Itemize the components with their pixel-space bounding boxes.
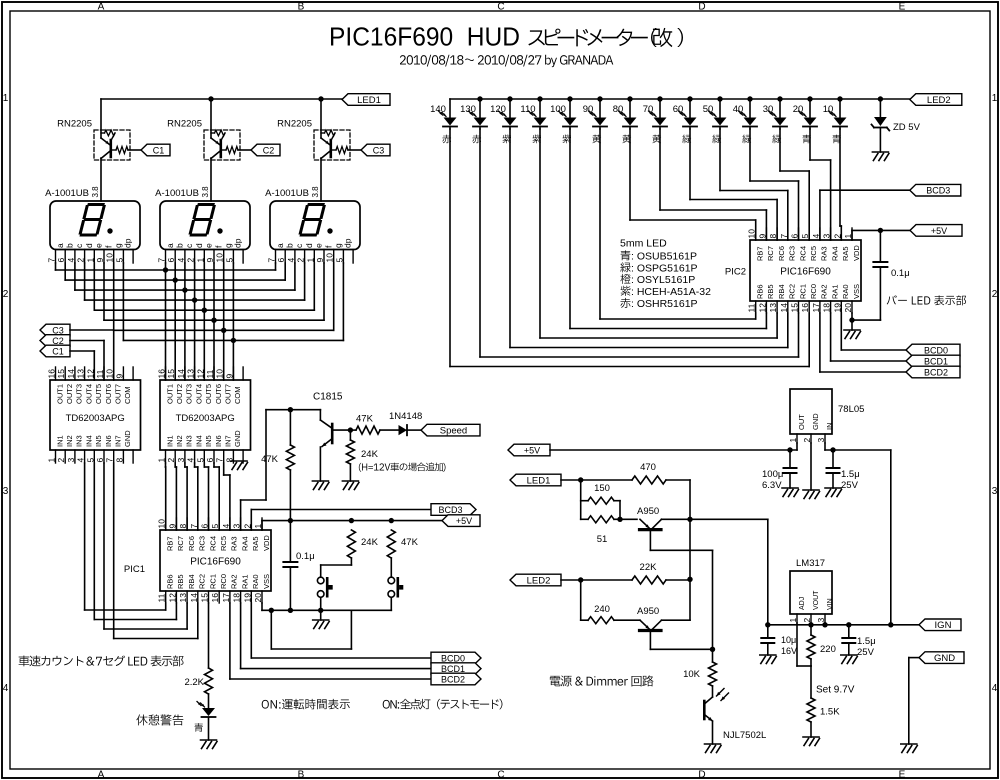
svg-text:2: 2 xyxy=(992,289,998,300)
svg-text:4: 4 xyxy=(286,258,296,263)
svg-text:BCD2: BCD2 xyxy=(441,674,465,684)
svg-text:COM: COM xyxy=(233,387,242,405)
svg-text:GND: GND xyxy=(811,413,820,430)
svg-text:1: 1 xyxy=(788,618,798,623)
svg-text:IN7: IN7 xyxy=(114,435,123,447)
svg-text:C2: C2 xyxy=(263,145,275,155)
svg-text:18: 18 xyxy=(232,593,242,603)
svg-text:NJL7502L: NJL7502L xyxy=(723,730,766,741)
svg-text:1: 1 xyxy=(157,458,167,463)
svg-text:15: 15 xyxy=(790,303,800,313)
svg-text:IN4: IN4 xyxy=(194,435,203,447)
svg-text:A-1001UB: A-1001UB xyxy=(155,188,199,199)
svg-text:5: 5 xyxy=(114,258,124,263)
svg-text:12: 12 xyxy=(757,303,767,313)
svg-text:dp: dp xyxy=(233,238,243,248)
svg-text:RA3: RA3 xyxy=(820,246,829,261)
svg-text:IGN: IGN xyxy=(935,620,952,631)
svg-text:11: 11 xyxy=(747,303,757,312)
svg-text:OUT4: OUT4 xyxy=(84,384,93,404)
svg-text:: OSPG5161P: : OSPG5161P xyxy=(631,263,698,275)
svg-text:IN2: IN2 xyxy=(65,435,74,447)
svg-text:2: 2 xyxy=(296,258,306,263)
svg-text:IN3: IN3 xyxy=(75,435,84,447)
svg-text:OUT5: OUT5 xyxy=(94,384,103,404)
svg-text:RC2: RC2 xyxy=(788,284,797,299)
svg-text:6: 6 xyxy=(95,458,105,463)
svg-text:3.8: 3.8 xyxy=(91,186,100,198)
svg-text:VSS: VSS xyxy=(852,284,861,299)
svg-text:RB7: RB7 xyxy=(756,246,765,261)
svg-text:OUT3: OUT3 xyxy=(75,384,84,404)
svg-text:VDD: VDD xyxy=(852,245,861,261)
svg-text:GND: GND xyxy=(934,653,955,664)
svg-text:+5V: +5V xyxy=(931,226,947,236)
svg-text:10: 10 xyxy=(215,369,225,379)
svg-text:2.2K: 2.2K xyxy=(184,677,204,688)
svg-text:PIC16F690 HUD: PIC16F690 HUD xyxy=(329,22,520,52)
svg-text:3: 3 xyxy=(816,618,826,623)
svg-text:9: 9 xyxy=(315,258,325,263)
svg-text:c: c xyxy=(184,243,194,248)
svg-text:14: 14 xyxy=(176,369,186,379)
svg-text:E: E xyxy=(899,2,906,13)
svg-text:VIN: VIN xyxy=(827,598,834,610)
svg-text:d: d xyxy=(194,243,204,248)
svg-text:RC1: RC1 xyxy=(798,284,807,299)
svg-text:19: 19 xyxy=(242,593,252,603)
svg-text:25V: 25V xyxy=(841,480,859,491)
svg-text:RA2: RA2 xyxy=(230,574,239,589)
svg-text:1: 1 xyxy=(992,93,998,104)
svg-text:6: 6 xyxy=(166,258,176,263)
svg-text:10: 10 xyxy=(215,253,225,263)
svg-text:2: 2 xyxy=(76,258,86,263)
svg-text:16V: 16V xyxy=(781,646,797,656)
svg-text:2: 2 xyxy=(56,458,66,463)
svg-text:7: 7 xyxy=(105,458,115,463)
svg-text:RC0: RC0 xyxy=(809,284,818,299)
svg-text:IN1: IN1 xyxy=(55,435,64,447)
svg-text:RA5: RA5 xyxy=(251,536,260,551)
svg-text:IN3: IN3 xyxy=(185,435,194,447)
svg-text:COM: COM xyxy=(123,387,132,405)
svg-text:14: 14 xyxy=(189,593,199,603)
svg-text:RC4: RC4 xyxy=(208,536,217,551)
svg-text:3: 3 xyxy=(3,486,9,497)
svg-text:8: 8 xyxy=(114,458,124,463)
svg-text:RC3: RC3 xyxy=(198,536,207,551)
svg-text:4: 4 xyxy=(66,258,76,263)
svg-text:13: 13 xyxy=(768,303,778,313)
svg-text:OUT7: OUT7 xyxy=(224,384,233,404)
svg-text:OUT: OUT xyxy=(797,414,806,430)
svg-text:g: g xyxy=(333,243,343,248)
svg-text:c: c xyxy=(74,243,84,248)
svg-text:D: D xyxy=(698,770,705,780)
svg-text:C3: C3 xyxy=(52,325,64,335)
svg-text:7: 7 xyxy=(267,258,277,263)
svg-text:15: 15 xyxy=(166,369,176,379)
svg-text:RA1: RA1 xyxy=(240,574,249,589)
svg-text:11: 11 xyxy=(205,369,215,378)
svg-text:d: d xyxy=(304,243,314,248)
svg-text:12: 12 xyxy=(85,369,95,379)
svg-text:13: 13 xyxy=(76,369,86,379)
svg-text:VSS: VSS xyxy=(262,574,271,589)
svg-text:OUT2: OUT2 xyxy=(175,384,184,404)
svg-text:16: 16 xyxy=(47,369,57,379)
svg-text:A: A xyxy=(98,2,105,13)
svg-text:RA4: RA4 xyxy=(830,246,839,261)
svg-text:LED1: LED1 xyxy=(527,475,551,486)
svg-text:3: 3 xyxy=(992,486,998,497)
svg-text:OUT7: OUT7 xyxy=(114,384,123,404)
svg-text:IN2: IN2 xyxy=(175,435,184,447)
svg-text:A950: A950 xyxy=(637,606,659,617)
svg-text:VDD: VDD xyxy=(262,535,271,551)
svg-text:RC6: RC6 xyxy=(187,536,196,551)
svg-text:7: 7 xyxy=(47,258,57,263)
svg-text:3: 3 xyxy=(816,438,826,443)
svg-text:1.5K: 1.5K xyxy=(820,707,840,718)
svg-text:10: 10 xyxy=(105,369,115,379)
svg-text:OUT5: OUT5 xyxy=(204,384,213,404)
svg-text:6: 6 xyxy=(205,458,215,463)
svg-text:C: C xyxy=(497,770,504,780)
svg-text:PIC1: PIC1 xyxy=(124,564,145,575)
svg-text:4: 4 xyxy=(3,683,9,694)
svg-text:OUT2: OUT2 xyxy=(65,384,74,404)
svg-text:RC4: RC4 xyxy=(798,246,807,261)
svg-text:78L05: 78L05 xyxy=(838,404,864,415)
svg-text:0.1μ: 0.1μ xyxy=(296,551,315,562)
svg-text:d: d xyxy=(84,243,94,248)
svg-text:9: 9 xyxy=(224,374,234,379)
svg-text:3: 3 xyxy=(176,458,186,463)
svg-text:14: 14 xyxy=(66,369,76,379)
svg-text:A950: A950 xyxy=(637,506,659,517)
svg-text:dp: dp xyxy=(123,238,133,248)
svg-text:IN6: IN6 xyxy=(214,435,223,447)
svg-text:a: a xyxy=(275,243,285,248)
svg-text:1: 1 xyxy=(3,93,9,104)
svg-text:1: 1 xyxy=(305,258,315,263)
svg-text:9: 9 xyxy=(114,374,124,379)
svg-text:RA5: RA5 xyxy=(841,246,850,261)
svg-text:17: 17 xyxy=(811,303,821,313)
svg-text:TD62003APG: TD62003APG xyxy=(176,413,235,424)
svg-text:g: g xyxy=(113,243,123,248)
svg-text:47K: 47K xyxy=(356,414,374,425)
svg-text:f: f xyxy=(103,245,113,248)
svg-text:C: C xyxy=(497,2,504,13)
svg-text:IN: IN xyxy=(825,423,834,431)
svg-text:: HCEH-A51A-32: : HCEH-A51A-32 xyxy=(631,286,711,298)
svg-text:10K: 10K xyxy=(683,669,701,680)
svg-text:3: 3 xyxy=(66,458,76,463)
svg-text:24K: 24K xyxy=(361,449,379,460)
svg-text:LM317: LM317 xyxy=(796,558,825,569)
svg-text:C1815: C1815 xyxy=(313,392,343,403)
svg-text:220: 220 xyxy=(820,644,836,655)
svg-text:b: b xyxy=(175,243,185,248)
svg-text:TD62003APG: TD62003APG xyxy=(66,413,125,424)
svg-text:5: 5 xyxy=(195,458,205,463)
svg-text:150: 150 xyxy=(594,483,610,494)
svg-text:A: A xyxy=(98,770,105,780)
svg-text:BCD1: BCD1 xyxy=(924,356,948,366)
svg-text:3.8: 3.8 xyxy=(201,186,210,198)
svg-text:12: 12 xyxy=(167,593,177,603)
svg-text:RC7: RC7 xyxy=(766,246,775,261)
svg-text:OUT4: OUT4 xyxy=(194,384,203,404)
svg-text:0.1μ: 0.1μ xyxy=(891,268,910,279)
svg-text:2: 2 xyxy=(802,618,812,623)
svg-text:RA1: RA1 xyxy=(830,284,839,299)
svg-text:+5V: +5V xyxy=(456,516,472,526)
svg-text:1.5μ: 1.5μ xyxy=(857,636,876,647)
svg-text:+5V: +5V xyxy=(524,445,540,455)
svg-text:LED2: LED2 xyxy=(927,95,951,106)
svg-text:14: 14 xyxy=(779,303,789,313)
svg-text:B: B xyxy=(298,770,305,780)
svg-text:IN7: IN7 xyxy=(224,435,233,447)
svg-text:C1: C1 xyxy=(153,145,165,155)
svg-text:7: 7 xyxy=(157,258,167,263)
svg-text:6: 6 xyxy=(56,258,66,263)
svg-text:BCD3: BCD3 xyxy=(438,505,462,515)
svg-text:GND: GND xyxy=(123,430,132,447)
svg-text:470: 470 xyxy=(640,462,656,473)
svg-text:IN4: IN4 xyxy=(84,435,93,447)
svg-text:5: 5 xyxy=(85,458,95,463)
svg-text:12: 12 xyxy=(195,369,205,379)
svg-text:18: 18 xyxy=(822,303,832,313)
svg-text:16: 16 xyxy=(800,303,810,313)
svg-text:RB5: RB5 xyxy=(176,574,185,589)
svg-text:RN2205: RN2205 xyxy=(167,119,202,130)
svg-text:IN5: IN5 xyxy=(204,435,213,447)
svg-text:b: b xyxy=(65,243,75,248)
svg-text:: OSYL5161P: : OSYL5161P xyxy=(631,274,695,286)
svg-text:RC2: RC2 xyxy=(198,574,207,589)
svg-text:RB4: RB4 xyxy=(187,574,196,589)
svg-text:B: B xyxy=(298,2,305,13)
svg-text:4: 4 xyxy=(186,458,196,463)
svg-text:9: 9 xyxy=(205,258,215,263)
svg-text:RB7: RB7 xyxy=(166,536,175,551)
svg-text:2: 2 xyxy=(802,438,812,443)
svg-text:24K: 24K xyxy=(361,537,379,548)
svg-text:RA3: RA3 xyxy=(230,536,239,551)
svg-text:A-1001UB: A-1001UB xyxy=(265,188,309,199)
svg-text:BCD0: BCD0 xyxy=(924,345,948,355)
svg-text:4: 4 xyxy=(76,458,86,463)
svg-text:f: f xyxy=(323,245,333,248)
svg-text:RC6: RC6 xyxy=(777,246,786,261)
svg-text:RN2205: RN2205 xyxy=(57,119,92,130)
svg-text:6.3V: 6.3V xyxy=(762,480,782,491)
svg-text:IN6: IN6 xyxy=(104,435,113,447)
svg-text:e: e xyxy=(314,243,324,248)
svg-text:1: 1 xyxy=(788,438,798,443)
svg-text:20: 20 xyxy=(843,303,853,313)
svg-text:1: 1 xyxy=(195,258,205,263)
svg-text:6: 6 xyxy=(276,258,286,263)
svg-text:e: e xyxy=(204,243,214,248)
svg-text:b: b xyxy=(285,243,295,248)
svg-text:OUT1: OUT1 xyxy=(165,384,174,404)
svg-text:100μ: 100μ xyxy=(762,469,783,480)
svg-text:BCD2: BCD2 xyxy=(924,367,948,377)
svg-text:a: a xyxy=(55,243,65,248)
svg-text:LED1: LED1 xyxy=(357,95,381,106)
svg-text:: OSHR5161P: : OSHR5161P xyxy=(631,298,698,310)
svg-text:PIC16F690: PIC16F690 xyxy=(190,557,241,568)
svg-text:GND: GND xyxy=(233,430,242,447)
svg-text:LED2: LED2 xyxy=(527,575,551,586)
svg-text:15: 15 xyxy=(200,593,210,603)
svg-text:10: 10 xyxy=(105,253,115,263)
svg-text:OUT6: OUT6 xyxy=(104,384,113,404)
svg-text:RC7: RC7 xyxy=(176,536,185,551)
svg-text:C1: C1 xyxy=(52,346,64,356)
svg-text:RC3: RC3 xyxy=(788,246,797,261)
svg-text:240: 240 xyxy=(594,604,610,615)
svg-text:C3: C3 xyxy=(373,145,385,155)
svg-text:BCD0: BCD0 xyxy=(441,653,465,663)
svg-text:E: E xyxy=(899,770,906,780)
svg-text:Speed: Speed xyxy=(440,426,467,437)
svg-text:2: 2 xyxy=(166,458,176,463)
svg-text:1: 1 xyxy=(47,458,57,463)
svg-text:47K: 47K xyxy=(401,537,419,548)
svg-text:e: e xyxy=(94,243,104,248)
svg-text:RB4: RB4 xyxy=(777,284,786,299)
svg-text:g: g xyxy=(223,243,233,248)
svg-text:RB6: RB6 xyxy=(166,574,175,589)
svg-text:VOUT: VOUT xyxy=(813,590,820,610)
svg-text:OUT6: OUT6 xyxy=(214,384,223,404)
svg-text:PIC2: PIC2 xyxy=(725,267,746,278)
svg-text:51: 51 xyxy=(597,534,608,545)
svg-text:a: a xyxy=(165,243,175,248)
svg-text:15: 15 xyxy=(56,369,66,379)
svg-text:RC0: RC0 xyxy=(219,574,228,589)
svg-text:1N4148: 1N4148 xyxy=(389,411,422,422)
svg-text:dp: dp xyxy=(343,238,353,248)
svg-text:22K: 22K xyxy=(640,562,658,573)
svg-text:OUT3: OUT3 xyxy=(185,384,194,404)
svg-text:4: 4 xyxy=(176,258,186,263)
svg-text:RC5: RC5 xyxy=(219,536,228,551)
svg-text:13: 13 xyxy=(178,593,188,603)
svg-text:RB5: RB5 xyxy=(766,284,775,299)
svg-text:RB6: RB6 xyxy=(756,284,765,299)
svg-text:IN1: IN1 xyxy=(165,435,174,447)
svg-text:BCD3: BCD3 xyxy=(926,186,950,196)
svg-text:1.5μ: 1.5μ xyxy=(841,469,860,480)
svg-text:5: 5 xyxy=(224,258,234,263)
svg-text:3.8: 3.8 xyxy=(311,186,320,198)
svg-text:20: 20 xyxy=(253,593,263,603)
svg-text:RA4: RA4 xyxy=(240,536,249,551)
svg-text:25V: 25V xyxy=(857,647,875,658)
svg-text:10μ: 10μ xyxy=(781,635,796,645)
svg-text:ADJ: ADJ xyxy=(799,597,806,610)
svg-text:D: D xyxy=(698,2,705,13)
svg-text:11: 11 xyxy=(95,369,105,378)
svg-text:Set 9.7V: Set 9.7V xyxy=(816,685,855,696)
svg-text:PIC16F690: PIC16F690 xyxy=(780,267,831,278)
svg-text:c: c xyxy=(294,243,304,248)
svg-text:19: 19 xyxy=(832,303,842,313)
svg-text:RA0: RA0 xyxy=(841,284,850,299)
svg-text:11: 11 xyxy=(157,593,167,602)
svg-text:RA0: RA0 xyxy=(251,574,260,589)
svg-text:10: 10 xyxy=(325,253,335,263)
svg-text:16: 16 xyxy=(157,369,167,379)
svg-text:RN2205: RN2205 xyxy=(277,119,312,130)
svg-text:47K: 47K xyxy=(261,454,279,465)
svg-text:A-1001UB: A-1001UB xyxy=(45,188,89,199)
svg-text:RA2: RA2 xyxy=(820,284,829,299)
svg-text:16: 16 xyxy=(210,593,220,603)
svg-text:13: 13 xyxy=(186,369,196,379)
svg-text:1: 1 xyxy=(85,258,95,263)
svg-text:: OSUB5161P: : OSUB5161P xyxy=(631,251,697,263)
svg-text:IN5: IN5 xyxy=(94,435,103,447)
svg-text:4: 4 xyxy=(992,683,998,694)
svg-text:17: 17 xyxy=(221,593,231,603)
svg-text:2: 2 xyxy=(3,289,9,300)
svg-text:9: 9 xyxy=(95,258,105,263)
svg-text:2: 2 xyxy=(186,258,196,263)
svg-text:C2: C2 xyxy=(52,336,64,346)
svg-text:5: 5 xyxy=(334,258,344,263)
svg-text:RC5: RC5 xyxy=(809,246,818,261)
svg-text:RC1: RC1 xyxy=(208,574,217,589)
svg-text:f: f xyxy=(213,245,223,248)
svg-text:5mm LED: 5mm LED xyxy=(620,238,667,250)
svg-text:ZD 5V: ZD 5V xyxy=(893,122,921,133)
svg-text:OUT1: OUT1 xyxy=(55,384,64,404)
svg-text:7: 7 xyxy=(215,458,225,463)
